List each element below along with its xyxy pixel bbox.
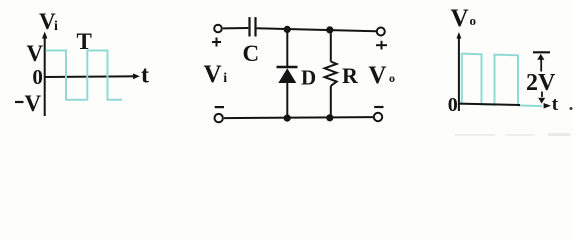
- svg-text:D: D: [301, 66, 316, 90]
- svg-text:o: o: [389, 71, 395, 85]
- svg-text:V: V: [27, 41, 44, 66]
- svg-text:V: V: [451, 5, 469, 32]
- svg-text:o: o: [470, 13, 477, 28]
- svg-text:t: t: [552, 94, 559, 115]
- svg-text:R: R: [342, 63, 359, 88]
- svg-text:i: i: [223, 71, 227, 86]
- svg-text:0: 0: [32, 65, 43, 89]
- svg-text:V: V: [204, 61, 222, 88]
- svg-text:0: 0: [448, 94, 458, 116]
- svg-text:i: i: [54, 19, 58, 34]
- svg-text:V: V: [25, 91, 42, 116]
- svg-text:V: V: [368, 62, 386, 89]
- svg-text:T: T: [77, 29, 92, 54]
- svg-text:C: C: [243, 41, 260, 66]
- svg-text:2V: 2V: [526, 70, 556, 96]
- svg-text:t: t: [141, 63, 149, 89]
